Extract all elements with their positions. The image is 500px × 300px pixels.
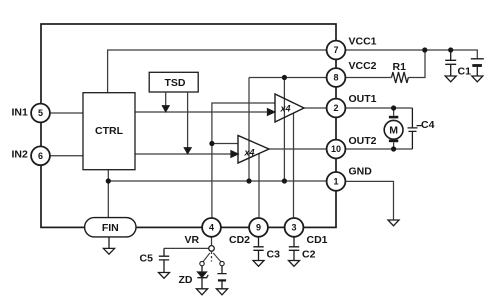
svg-text:9: 9: [256, 223, 261, 233]
switch throw left circle: [200, 261, 204, 265]
svg-text:3: 3: [291, 223, 296, 233]
switch blade left: [203, 253, 210, 262]
wire CTRL to lower amp input: [135, 153, 232, 155]
svg-text:C5: C5: [140, 253, 154, 265]
svg-text:IN1: IN1: [12, 106, 29, 118]
wire R1 to VCC1 rail: [408, 50, 425, 78]
pin 9: [249, 218, 268, 237]
svg-text:CTRL: CTRL: [95, 125, 124, 137]
svg-text:1: 1: [333, 177, 338, 187]
svg-text:VCC2: VCC2: [349, 60, 377, 72]
svg-text:x4: x4: [279, 103, 290, 113]
junction on VR line: [209, 141, 214, 146]
svg-text:GND: GND: [349, 166, 373, 178]
wire VR to C5: [164, 247, 209, 249]
pin 8: [327, 68, 346, 87]
junction upper amp on GND rail: [282, 178, 287, 183]
ground under FIN: [103, 237, 114, 254]
wire lower amp to CD2 pin: [258, 154, 260, 228]
ground under bypass capacitor: [445, 76, 456, 82]
wire VCC2 internal rail: [249, 77, 336, 79]
svg-text:CD2: CD2: [229, 234, 250, 246]
zener diode ZD: [201, 266, 203, 272]
pin 6: [31, 146, 50, 165]
wire VCC1 internal to CTRL top: [108, 50, 336, 93]
capacitor C3: [253, 237, 263, 261]
svg-text:C4: C4: [421, 119, 435, 131]
ground under VR capacitor: [216, 289, 227, 295]
pin 2: [327, 99, 346, 118]
IC package outline: [41, 24, 336, 227]
wire OUT2 external: [345, 148, 412, 150]
op-amp upper x4: [275, 94, 304, 122]
capacitor electrolytic on VR switch right: [217, 266, 226, 289]
TSD shutdown arrow right: [187, 92, 189, 148]
svg-text:TSD: TSD: [165, 77, 186, 89]
svg-text:6: 6: [38, 151, 43, 161]
FIN block: [85, 218, 136, 237]
svg-text:VR: VR: [185, 234, 200, 246]
wire branch to lower amp second input: [212, 143, 238, 145]
wire supply line lower amp: [248, 78, 250, 182]
svg-text:IN2: IN2: [12, 149, 29, 161]
ground symbol at GND pin: [388, 220, 399, 226]
svg-text:4: 4: [209, 223, 214, 233]
ground under C5: [159, 273, 170, 279]
junction R1 on VCC rail: [422, 47, 427, 52]
svg-text:M: M: [389, 125, 398, 137]
wire upper amp output to OUT1 pin: [304, 107, 336, 109]
wire upper amp to CD1 pin: [293, 113, 295, 227]
capacitor C4 branch: [408, 108, 422, 149]
wire CTRL bottom stem to FIN: [107, 170, 109, 218]
ground under C1: [472, 76, 483, 82]
ground under C2: [289, 261, 300, 267]
capacitor C5: [159, 248, 169, 272]
wire GND external: [345, 181, 393, 219]
svg-text:ZD: ZD: [179, 274, 193, 286]
junction on VCC2 rail: [282, 75, 287, 80]
svg-text:2: 2: [333, 103, 338, 113]
wire lower amp output to OUT2 pin: [269, 148, 336, 150]
capacitor bypass at VCC rail: [445, 50, 456, 76]
capacitor C1 electrolytic: [471, 59, 484, 76]
pin 4: [202, 218, 221, 237]
CTRL block: [83, 93, 135, 170]
pin 1: [327, 172, 346, 191]
svg-text:OUT2: OUT2: [349, 135, 377, 147]
pin 7: [327, 41, 346, 60]
svg-text:FIN: FIN: [102, 222, 119, 234]
svg-text:OUT1: OUT1: [349, 93, 377, 105]
junction bypass cap on VCC rail: [448, 47, 453, 52]
wire pin 4 to VR terminal: [211, 237, 213, 246]
wire IN1 to CTRL: [50, 112, 83, 114]
TSD shutdown arrow left: [165, 92, 167, 106]
op-amp lower x4: [238, 136, 269, 164]
ground under C3: [253, 261, 264, 267]
svg-text:CD1: CD1: [307, 234, 328, 246]
TSD block: [149, 72, 198, 92]
wire VR vertical from pin 4 to upper amp: [212, 103, 275, 227]
svg-text:8: 8: [333, 73, 338, 83]
ground under ZD: [196, 289, 207, 295]
svg-text:C3: C3: [267, 249, 281, 261]
svg-text:VCC1: VCC1: [349, 36, 377, 48]
switch common dashes: [211, 252, 213, 262]
svg-text:7: 7: [333, 45, 338, 55]
junction motor bottom: [391, 146, 396, 151]
svg-text:C1: C1: [458, 66, 472, 78]
wire OUT1 external: [345, 107, 412, 109]
svg-text:C2: C2: [302, 249, 316, 261]
svg-text:10: 10: [331, 144, 341, 154]
wire IN2 to CTRL: [50, 155, 83, 157]
resistor R1: [392, 72, 409, 83]
capacitor C2: [289, 237, 299, 261]
wire CTRL to upper amp input: [135, 111, 268, 113]
wire supply line upper amp: [283, 78, 285, 182]
switch blade right: [213, 253, 221, 262]
arrowhead into lower amp: [231, 151, 238, 157]
svg-text:5: 5: [38, 108, 43, 118]
VR terminal circle: [209, 246, 215, 252]
junction motor top: [391, 105, 396, 110]
wire VCC2 to R1: [345, 77, 391, 79]
junction CTRL stem on GND rail: [106, 178, 111, 183]
svg-text:x4: x4: [243, 148, 254, 158]
wire internal GND rail: [108, 180, 336, 182]
motor M branch: [393, 108, 395, 149]
wire VCC1 external rail: [345, 50, 477, 59]
arrowhead into upper amp: [268, 109, 275, 115]
pin 3: [285, 218, 304, 237]
switch throw right circle: [220, 261, 224, 265]
svg-text:R1: R1: [393, 61, 407, 73]
pin 10: [327, 140, 346, 159]
junction lower amp on GND rail: [246, 178, 251, 183]
pin 5: [31, 104, 50, 123]
